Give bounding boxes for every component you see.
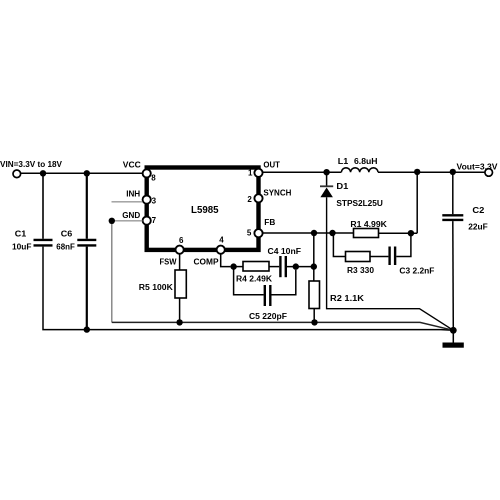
resistor R3 <box>346 252 371 262</box>
label pin number 3 <box>152 197 157 206</box>
label pin number 2 <box>247 195 252 204</box>
pin 8 VCC <box>143 169 151 177</box>
svg-text:L5985: L5985 <box>191 204 219 216</box>
node junction ground collection <box>450 327 457 334</box>
label pin number 5 <box>247 229 252 238</box>
node junction D1 top <box>323 169 329 175</box>
svg-text:22uF: 22uF <box>468 222 488 232</box>
svg-text:D1: D1 <box>336 181 348 191</box>
pin 2 SYNCH <box>254 194 262 202</box>
node junction FB to compensation <box>311 230 317 236</box>
capacitor C4 <box>280 256 285 277</box>
label FB <box>264 217 275 227</box>
svg-text:FSW: FSW <box>160 256 178 266</box>
svg-text:4: 4 <box>219 235 224 244</box>
pin 1 OUT <box>254 169 262 177</box>
node junction R4 left <box>230 263 236 269</box>
label VIN=3.3V to 18V <box>0 159 62 169</box>
pin 6 FSW <box>176 246 184 254</box>
svg-text:5: 5 <box>247 229 252 238</box>
svg-text:7: 7 <box>152 216 157 225</box>
node Vout terminal <box>485 169 493 177</box>
svg-text:68nF: 68nF <box>56 241 75 251</box>
svg-text:R3 330: R3 330 <box>347 265 374 275</box>
svg-text:C2: C2 <box>472 205 484 215</box>
wire R1 right lead <box>379 232 418 234</box>
svg-text:3: 3 <box>152 197 157 206</box>
capacitor C5 <box>265 285 271 306</box>
node junction output feedback column <box>414 169 420 175</box>
pin 3 INH <box>143 196 151 204</box>
label R5 100K <box>139 282 174 292</box>
wire GND down to ground trace <box>111 224 113 322</box>
pin 4 COMP <box>217 246 225 254</box>
label SYNCH <box>263 187 291 197</box>
wire R3 left branch <box>333 233 346 257</box>
label 68nF <box>56 241 75 251</box>
label R1 4.99K <box>350 219 387 229</box>
wire FSW pin6 to R5 <box>179 254 181 270</box>
wire D1 anode to ground <box>327 197 454 330</box>
svg-text:2: 2 <box>247 195 252 204</box>
svg-text:VIN=3.3V to 18V: VIN=3.3V to 18V <box>0 159 62 169</box>
label STPS2L25U <box>336 198 383 208</box>
wire C4 to FB branch node <box>287 266 314 268</box>
label 22uF <box>468 222 488 232</box>
label L5985 <box>191 204 219 216</box>
capacitor C6 <box>77 240 96 246</box>
label R3 330 <box>347 265 374 275</box>
wire FB rail from pin5 to R1 <box>263 232 354 234</box>
diode D1 <box>320 172 333 197</box>
svg-text:C5 220pF: C5 220pF <box>249 311 287 321</box>
wire R4 to C4 <box>269 266 279 268</box>
wire R4 left lead <box>234 266 243 268</box>
svg-text:8: 8 <box>151 173 156 182</box>
label pin number 1 <box>248 169 253 178</box>
label C6 <box>61 228 73 238</box>
wire R3 to C3 <box>370 256 388 258</box>
svg-text:COMP: COMP <box>194 256 219 266</box>
resistor R1 <box>354 229 379 238</box>
svg-text:C3 2.2nF: C3 2.2nF <box>399 266 434 276</box>
wire input rail to VCC pin8 <box>20 172 142 174</box>
svg-text:R1 4.99K: R1 4.99K <box>350 219 387 229</box>
resistor R4 <box>243 262 269 272</box>
wire OUT rail pin1 to L1 <box>263 171 342 173</box>
pin 5 FB <box>254 229 262 237</box>
svg-text:INH: INH <box>126 188 140 198</box>
svg-text:10uF: 10uF <box>12 241 32 251</box>
label C2 <box>472 205 484 215</box>
label GND <box>122 210 140 220</box>
node junction C1 top <box>40 170 46 176</box>
wire L1 to Vout <box>378 171 485 173</box>
svg-text:L1: L1 <box>338 156 349 166</box>
svg-text:OUT: OUT <box>263 159 280 169</box>
op-amp U1 L5985 IC body <box>147 168 259 250</box>
label pin number 8 <box>151 173 156 182</box>
wire C6 lower lead <box>86 247 88 330</box>
label C1 <box>15 228 27 238</box>
wire R2 to ground trace <box>313 309 315 323</box>
capacitor C1 <box>34 240 53 246</box>
wire ground dot to ground symbol <box>452 330 454 342</box>
svg-text:1: 1 <box>248 169 253 178</box>
wire C6 upper lead <box>86 173 88 239</box>
node junction R1 right <box>408 230 414 236</box>
label pin number 4 <box>219 235 224 244</box>
label 10uF <box>12 241 32 251</box>
label pin number 7 <box>152 216 157 225</box>
svg-text:GND: GND <box>122 210 140 220</box>
wire R5 to ground trace <box>179 298 181 322</box>
label OUT <box>263 159 280 169</box>
svg-text:R4 2.49K: R4 2.49K <box>236 274 273 284</box>
capacitor C2 <box>442 215 463 220</box>
svg-text:SYNCH: SYNCH <box>263 187 291 197</box>
ground <box>443 343 464 348</box>
resistor R2 <box>309 281 320 309</box>
label R4 2.49K <box>236 274 273 284</box>
node VIN input terminal <box>13 170 21 178</box>
node junction GND dot <box>109 218 115 224</box>
node junction R5 ground <box>176 319 182 325</box>
node junction R2 ground <box>311 319 317 325</box>
wire INH stub <box>112 201 143 203</box>
label R2 1.1K <box>330 293 365 303</box>
wire feedback column up to output rail <box>416 172 418 233</box>
svg-text:C4 10nF: C4 10nF <box>268 246 302 256</box>
label C5 220pF <box>249 311 287 321</box>
wire COMP pin4 down to R4 node <box>221 254 231 267</box>
node junction C4 right <box>293 263 299 269</box>
label FSW <box>160 256 178 266</box>
pin 7 GND <box>143 217 151 225</box>
label D1 <box>336 181 348 191</box>
wire C2 upper lead <box>452 172 454 214</box>
wire C1 upper lead <box>42 173 44 239</box>
svg-text:6: 6 <box>179 236 184 245</box>
svg-text:R2 1.1K: R2 1.1K <box>330 293 365 303</box>
label Vout=3.3V <box>457 161 498 171</box>
wire ground trace from GND pin <box>112 322 454 330</box>
node junction comp net at R2 column <box>311 263 317 269</box>
node junction FB to R3 branch <box>329 230 335 236</box>
node junction C2 top <box>450 169 456 175</box>
wire C1 lower lead to ground trace <box>43 247 453 331</box>
label VCC <box>123 160 141 170</box>
resistor R5 <box>175 270 186 298</box>
wire GND stub <box>112 220 143 222</box>
svg-text:VCC: VCC <box>123 160 141 170</box>
node junction C6 bottom <box>84 326 90 332</box>
wire C5 left branch <box>234 267 264 295</box>
inductor L1 <box>341 168 378 172</box>
label INH <box>126 188 140 198</box>
label L1 6.8uH <box>338 156 378 166</box>
svg-text:C1: C1 <box>15 228 27 238</box>
label C3 2.2nF <box>399 266 434 276</box>
label pin number 6 <box>179 236 184 245</box>
label C4 10nF <box>268 246 302 256</box>
label COMP <box>194 256 219 266</box>
svg-text:C6: C6 <box>61 228 73 238</box>
wire C5 right branch up to C4 right node <box>272 270 296 295</box>
svg-text:R5 100K: R5 100K <box>139 282 174 292</box>
svg-text:Vout=3.3V: Vout=3.3V <box>457 161 498 171</box>
svg-text:6.8uH: 6.8uH <box>354 156 378 166</box>
svg-text:FB: FB <box>264 217 275 227</box>
wire C2 lower lead to ground <box>452 221 455 330</box>
wire FB column down to R2 <box>313 233 315 281</box>
svg-text:STPS2L25U: STPS2L25U <box>336 198 383 208</box>
node junction C6 top <box>84 170 90 176</box>
wire C3 right up to R1 right node <box>396 236 411 257</box>
capacitor C3 <box>390 247 396 266</box>
